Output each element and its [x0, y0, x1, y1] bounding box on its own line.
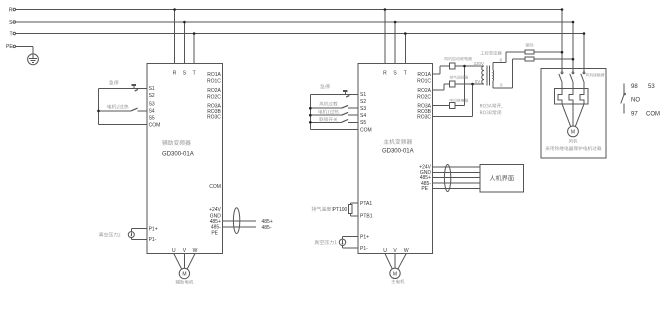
- svg-text:9: 9: [500, 82, 503, 87]
- svg-text:RO2A: RO2A: [207, 88, 221, 94]
- svg-text:485+: 485+: [262, 219, 273, 225]
- svg-text:RO1C: RO1C: [417, 78, 431, 84]
- svg-text:S4: S4: [149, 109, 155, 115]
- svg-text:PE: PE: [421, 186, 428, 192]
- svg-text:P1+: P1+: [360, 235, 369, 241]
- svg-text:M: M: [182, 272, 186, 278]
- svg-text:W: W: [404, 248, 409, 254]
- svg-text:U: U: [383, 248, 387, 254]
- svg-text:COM: COM: [209, 184, 221, 190]
- svg-text:RO1A: RO1A: [417, 72, 431, 78]
- svg-text:S: S: [183, 70, 187, 76]
- svg-text:P1+: P1+: [149, 226, 158, 232]
- svg-text:S1: S1: [149, 86, 155, 92]
- svg-text:RO2A: RO2A: [417, 88, 431, 94]
- svg-text:S5: S5: [149, 116, 155, 122]
- svg-text:P1-: P1-: [360, 246, 368, 252]
- svg-text:RO1C: RO1C: [207, 78, 221, 84]
- svg-text:COM: COM: [149, 122, 161, 128]
- svg-text:T: T: [404, 70, 407, 76]
- svg-text:S5: S5: [360, 120, 366, 126]
- svg-text:PE: PE: [6, 44, 13, 50]
- svg-text:485-: 485-: [262, 225, 272, 231]
- svg-text:S3: S3: [149, 102, 155, 108]
- svg-text:GD300-01A: GD300-01A: [382, 148, 414, 154]
- svg-text:RO2C: RO2C: [207, 94, 221, 100]
- svg-text:220V: 220V: [474, 61, 485, 66]
- svg-text:97: 97: [631, 111, 638, 117]
- svg-text:S2: S2: [149, 93, 155, 99]
- svg-text:RO1A: RO1A: [207, 72, 221, 78]
- svg-text:PTA1: PTA1: [360, 201, 372, 207]
- svg-text:S1: S1: [360, 92, 366, 98]
- svg-text:0V: 0V: [475, 79, 481, 84]
- svg-text:RO3C: RO3C: [207, 114, 221, 120]
- svg-text:U: U: [172, 248, 176, 254]
- svg-text:PT100: PT100: [333, 207, 348, 213]
- svg-text:53: 53: [648, 84, 655, 90]
- svg-text:R: R: [383, 70, 387, 76]
- svg-text:R: R: [9, 7, 13, 13]
- svg-text:GD300-01A: GD300-01A: [162, 152, 194, 158]
- svg-text:RO3C: RO3C: [417, 114, 431, 120]
- svg-text:8: 8: [500, 58, 503, 63]
- svg-text:P1-: P1-: [149, 237, 157, 243]
- svg-text:T: T: [193, 70, 196, 76]
- svg-text:RO2C: RO2C: [417, 94, 431, 100]
- svg-text:S2: S2: [360, 99, 366, 105]
- svg-text:S: S: [9, 20, 13, 26]
- svg-text:98: 98: [631, 84, 638, 90]
- svg-text:PE: PE: [211, 230, 218, 236]
- svg-text:COM: COM: [646, 111, 660, 117]
- svg-text:S3: S3: [360, 106, 366, 112]
- svg-text:S: S: [393, 70, 397, 76]
- svg-text:R: R: [173, 70, 177, 76]
- svg-text:PTB1: PTB1: [360, 214, 373, 220]
- svg-text:M: M: [571, 129, 575, 135]
- svg-text:NO: NO: [631, 97, 640, 103]
- svg-text:COM: COM: [360, 127, 372, 133]
- svg-text:M: M: [393, 271, 397, 277]
- svg-text:S4: S4: [360, 113, 366, 119]
- svg-text:W: W: [193, 248, 198, 254]
- svg-text:T: T: [9, 31, 12, 37]
- svg-text:+24V: +24V: [209, 207, 221, 213]
